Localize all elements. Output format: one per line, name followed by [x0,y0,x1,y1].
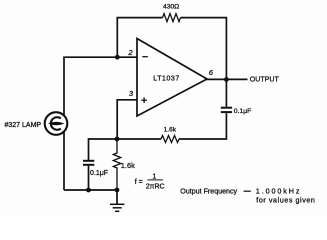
svg-text:2πRC: 2πRC [146,184,165,191]
node junction cap-ground [86,188,91,193]
resistor R 430 zigzag [163,14,181,22]
lamp #327 inner filament arc [51,117,61,130]
wire pin3 to wien node [117,100,137,139]
svg-text:0.1μF: 0.1μF [234,108,252,115]
formula f = 1/(2 pi RC) [135,174,165,191]
resistor R 1.6k horizontal zigzag [161,136,179,143]
op-amp plus input sign [141,97,147,103]
lamp #327 filament lens [48,122,65,126]
svg-text:for values given: for values given [256,196,315,205]
svg-text:2: 2 [127,48,133,57]
wire top feedback right segment [181,18,227,80]
svg-text:f =: f = [135,179,143,186]
svg-text:#327 LAMP: #327 LAMP [5,122,42,129]
op-amp minus input sign [142,56,148,58]
note dash [244,190,251,192]
capacitor C 0.1uF wien lower stub [88,166,90,190]
op-amp U1 LT1037 triangle [137,39,207,117]
svg-text:1.6k: 1.6k [164,126,177,133]
capacitor C 0.1uF output plates [221,108,232,112]
node junction output [224,77,229,82]
wire output stub [226,78,247,80]
wire ground stem [116,190,118,204]
capacitor C 0.1uF wien plates [83,161,94,165]
wire top feedback left segment [117,18,162,58]
svg-text:Output Frequency: Output Frequency [180,187,237,195]
svg-text:LT1037: LT1037 [153,76,180,83]
svg-text:3: 3 [129,89,134,98]
wire bottom ground rail [64,189,117,191]
wire pin6 output [205,78,226,80]
svg-text:430Ω: 430Ω [163,4,179,11]
wire right rail upper [225,79,227,106]
wire lamp drop [63,130,65,190]
svg-text:1.000kHz: 1.000kHz [256,186,302,195]
lamp #327 outer circle [45,112,68,135]
wire wien node horizontal left [89,139,162,160]
wire wien node horizontal right [179,113,226,139]
ground symbol [110,204,124,211]
svg-text:1.6k: 1.6k [121,161,135,170]
resistor R 1.6k vertical with leads [113,139,120,190]
svg-text:OUTPUT: OUTPUT [250,77,280,84]
wire pin2 node horizontal [64,57,137,118]
svg-text:6: 6 [209,68,214,77]
node junction wien [115,137,120,142]
node junction ground rail [115,188,120,193]
svg-text:0.1μF: 0.1μF [90,170,108,177]
node junction pin2 [115,55,120,60]
